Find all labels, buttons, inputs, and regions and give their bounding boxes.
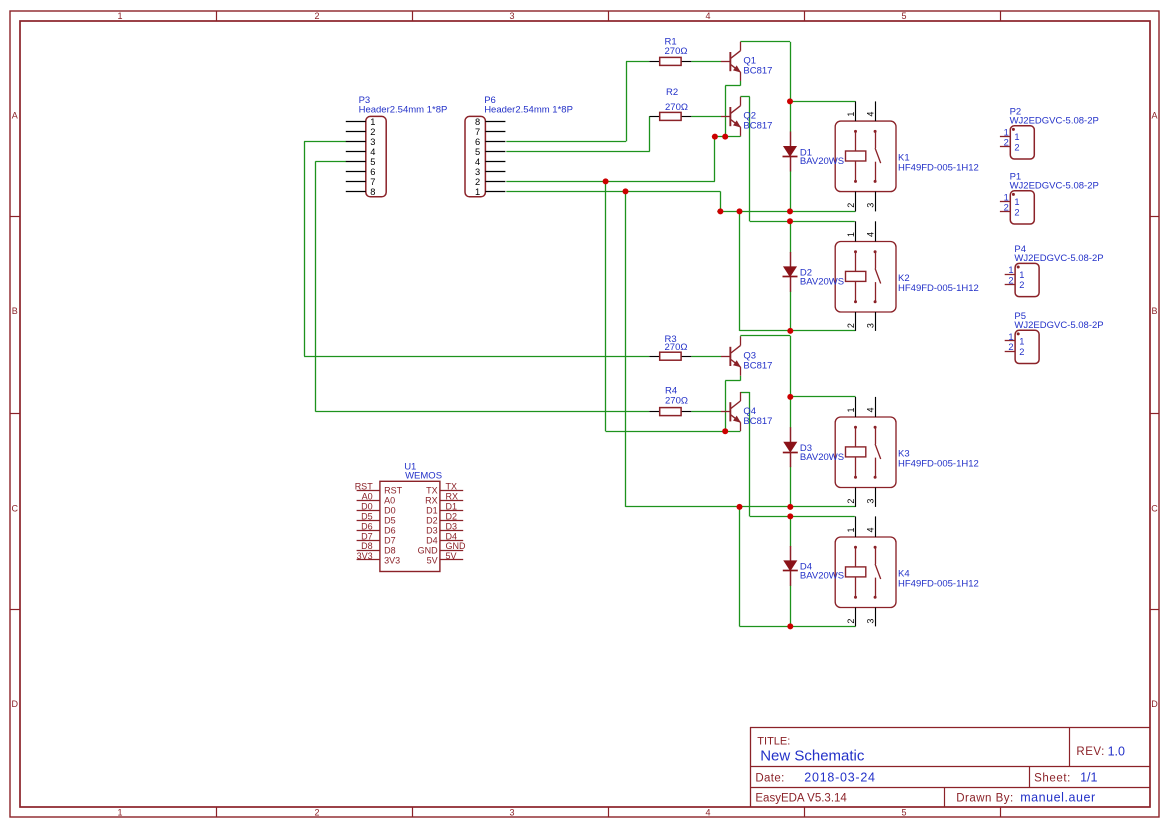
svg-text:1: 1	[117, 11, 122, 21]
svg-text:D: D	[12, 699, 19, 709]
svg-text:TX: TX	[426, 486, 438, 496]
svg-text:REV:: REV:	[1076, 746, 1104, 758]
svg-text:B: B	[1151, 306, 1157, 316]
svg-text:5: 5	[475, 147, 480, 157]
svg-text:manuel.auer: manuel.auer	[1020, 791, 1096, 805]
svg-text:2: 2	[846, 499, 856, 504]
svg-text:6: 6	[370, 167, 375, 177]
svg-text:3: 3	[509, 808, 514, 818]
svg-text:1: 1	[1014, 132, 1019, 142]
svg-text:3V3: 3V3	[357, 551, 373, 561]
svg-text:RST: RST	[355, 482, 374, 492]
svg-text:2: 2	[846, 203, 856, 208]
svg-text:3: 3	[866, 619, 876, 624]
svg-text:R2: R2	[666, 87, 678, 98]
svg-text:2: 2	[1014, 143, 1019, 153]
svg-text:4: 4	[370, 147, 375, 157]
svg-text:RST: RST	[384, 486, 403, 496]
svg-text:2: 2	[1004, 138, 1009, 148]
svg-text:3: 3	[866, 203, 876, 208]
svg-text:4: 4	[866, 407, 876, 412]
svg-text:2: 2	[1008, 275, 1013, 285]
svg-text:Header2.54mm 1*8P: Header2.54mm 1*8P	[484, 104, 573, 115]
svg-text:RX: RX	[425, 496, 438, 506]
svg-text:WJ2EDGVC-5.08-2P: WJ2EDGVC-5.08-2P	[1014, 253, 1103, 264]
svg-text:1: 1	[846, 112, 856, 117]
svg-text:HF49FD-005-1H12: HF49FD-005-1H12	[898, 283, 979, 294]
svg-text:C: C	[1151, 504, 1158, 514]
svg-text:BAV20WS: BAV20WS	[800, 452, 844, 463]
svg-text:C: C	[12, 504, 19, 514]
svg-text:4: 4	[475, 157, 480, 167]
svg-text:D: D	[1151, 699, 1158, 709]
svg-text:3: 3	[866, 499, 876, 504]
svg-text:EasyEDA V5.3.14: EasyEDA V5.3.14	[755, 792, 847, 804]
svg-text:1: 1	[475, 187, 480, 197]
svg-text:New Schematic: New Schematic	[760, 748, 865, 765]
svg-text:270Ω: 270Ω	[665, 342, 688, 353]
svg-text:8: 8	[370, 187, 375, 197]
svg-text:1.0: 1.0	[1108, 745, 1125, 759]
svg-text:BC817: BC817	[743, 361, 772, 372]
svg-text:3V3: 3V3	[384, 555, 400, 565]
svg-text:D3: D3	[426, 525, 438, 535]
svg-text:D1: D1	[426, 506, 438, 516]
svg-text:1: 1	[1019, 270, 1024, 280]
svg-text:D3: D3	[446, 521, 458, 531]
svg-text:WEMOS: WEMOS	[405, 470, 442, 481]
svg-text:D6: D6	[384, 525, 396, 535]
svg-text:GND: GND	[446, 541, 467, 551]
svg-text:A: A	[12, 111, 18, 121]
svg-text:GND: GND	[418, 545, 439, 555]
svg-text:2: 2	[846, 323, 856, 328]
svg-text:5V: 5V	[446, 551, 457, 561]
svg-text:2: 2	[1019, 280, 1024, 290]
svg-text:BC817: BC817	[743, 66, 772, 77]
svg-text:D2: D2	[446, 511, 458, 521]
svg-text:RX: RX	[446, 492, 459, 502]
svg-text:6: 6	[475, 137, 480, 147]
svg-text:TITLE:: TITLE:	[757, 735, 790, 747]
svg-text:1: 1	[117, 808, 122, 818]
svg-text:BC817: BC817	[743, 416, 772, 427]
svg-text:D4: D4	[426, 535, 438, 545]
svg-text:HF49FD-005-1H12: HF49FD-005-1H12	[898, 163, 979, 174]
svg-text:A: A	[1151, 111, 1157, 121]
svg-text:1: 1	[846, 407, 856, 412]
svg-text:1: 1	[846, 527, 856, 532]
svg-text:7: 7	[370, 177, 375, 187]
svg-text:A0: A0	[362, 492, 373, 502]
svg-text:HF49FD-005-1H12: HF49FD-005-1H12	[898, 458, 979, 469]
svg-text:B: B	[12, 306, 18, 316]
svg-text:270Ω: 270Ω	[665, 102, 688, 113]
svg-text:1: 1	[1008, 332, 1013, 342]
svg-text:2: 2	[1008, 342, 1013, 352]
svg-text:4: 4	[866, 527, 876, 532]
svg-text:4: 4	[866, 232, 876, 237]
svg-text:D5: D5	[384, 516, 396, 526]
svg-text:3: 3	[370, 137, 375, 147]
svg-text:3: 3	[475, 167, 480, 177]
svg-text:TX: TX	[446, 482, 458, 492]
svg-text:D6: D6	[361, 521, 373, 531]
svg-text:BAV20WS: BAV20WS	[800, 156, 844, 167]
svg-text:8: 8	[475, 117, 480, 127]
svg-text:1: 1	[370, 117, 375, 127]
svg-text:D1: D1	[446, 501, 458, 511]
svg-text:D0: D0	[384, 506, 396, 516]
svg-text:BC817: BC817	[743, 121, 772, 132]
svg-text:4: 4	[866, 112, 876, 117]
svg-text:2: 2	[314, 11, 319, 21]
svg-text:2: 2	[1004, 203, 1009, 213]
svg-text:2: 2	[314, 808, 319, 818]
svg-text:4: 4	[705, 808, 710, 818]
svg-text:BAV20WS: BAV20WS	[800, 277, 844, 288]
svg-text:2: 2	[846, 619, 856, 624]
svg-text:2: 2	[1019, 347, 1024, 357]
svg-text:WJ2EDGVC-5.08-2P: WJ2EDGVC-5.08-2P	[1010, 116, 1099, 127]
svg-text:2: 2	[475, 177, 480, 187]
svg-text:D7: D7	[384, 535, 396, 545]
svg-text:D8: D8	[361, 541, 373, 551]
svg-text:1: 1	[846, 232, 856, 237]
svg-text:2: 2	[1014, 208, 1019, 218]
svg-text:1: 1	[1008, 265, 1013, 275]
svg-text:2: 2	[370, 127, 375, 137]
svg-text:270Ω: 270Ω	[665, 395, 688, 406]
svg-text:WJ2EDGVC-5.08-2P: WJ2EDGVC-5.08-2P	[1014, 320, 1103, 331]
svg-text:D4: D4	[446, 531, 458, 541]
svg-text:A0: A0	[384, 496, 395, 506]
svg-text:D8: D8	[384, 545, 396, 555]
svg-text:5: 5	[901, 808, 906, 818]
svg-text:5V: 5V	[427, 555, 438, 565]
svg-text:D5: D5	[361, 511, 373, 521]
svg-text:1/1: 1/1	[1080, 771, 1097, 785]
svg-text:1: 1	[1019, 337, 1024, 347]
svg-text:Date:: Date:	[755, 772, 784, 784]
svg-text:1: 1	[1004, 192, 1009, 202]
svg-text:Header2.54mm 1*8P: Header2.54mm 1*8P	[359, 104, 448, 115]
svg-text:D0: D0	[361, 501, 373, 511]
svg-text:3: 3	[509, 11, 514, 21]
svg-text:1: 1	[1014, 197, 1019, 207]
svg-text:D2: D2	[426, 516, 438, 526]
svg-text:HF49FD-005-1H12: HF49FD-005-1H12	[898, 578, 979, 589]
svg-text:Drawn By:: Drawn By:	[956, 792, 1014, 804]
svg-text:7: 7	[475, 127, 480, 137]
svg-text:5: 5	[370, 157, 375, 167]
svg-text:WJ2EDGVC-5.08-2P: WJ2EDGVC-5.08-2P	[1010, 181, 1099, 192]
svg-text:270Ω: 270Ω	[665, 46, 688, 57]
svg-text:D7: D7	[361, 531, 373, 541]
svg-text:3: 3	[866, 323, 876, 328]
svg-text:2018-03-24: 2018-03-24	[804, 771, 875, 785]
svg-text:4: 4	[705, 11, 710, 21]
svg-text:1: 1	[1004, 127, 1009, 137]
svg-text:5: 5	[901, 11, 906, 21]
svg-text:BAV20WS: BAV20WS	[800, 571, 844, 582]
svg-text:Sheet:: Sheet:	[1034, 772, 1071, 784]
